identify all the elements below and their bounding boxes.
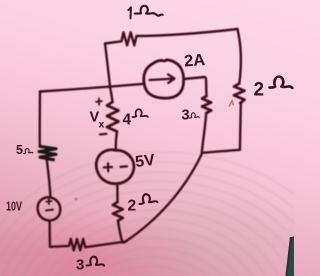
wire R5 top up to corner D — [39, 92, 42, 147]
5V source plus polarity mark — [104, 163, 112, 171]
resistor R2 right 2Ω vertical zigzag — [234, 84, 245, 104]
svg-text:4: 4 — [123, 112, 132, 129]
current source I1 2A circle — [144, 60, 184, 98]
wire corner B down to R2 right top — [237, 29, 241, 84]
svg-text:10V: 10V — [6, 199, 22, 214]
wire 5V source down to R2 middle — [116, 183, 119, 202]
svg-text:2A: 2A — [183, 51, 205, 70]
wire corner F up to R2 right bottom — [239, 104, 242, 150]
Vx plus polarity mark — [96, 98, 102, 104]
wire left side of top loop (A to C) — [105, 44, 110, 87]
wire R3 bottom down to corner E — [202, 113, 206, 153]
current source arrow — [150, 74, 175, 83]
5V source minus polarity mark — [121, 165, 128, 168]
value label 1Ω (top resistor) — [128, 7, 131, 18]
wire diagonal from corner E to junction G — [124, 155, 202, 243]
wire current source right to R3 top — [184, 77, 207, 96]
svg-text:x: x — [99, 119, 105, 131]
wire horizontal through junction C — [40, 84, 145, 92]
svg-text:5V: 5V — [134, 152, 156, 171]
resistor R5 5Ω hatched — [39, 146, 56, 159]
wire junction C down to R4 — [110, 87, 113, 102]
wire 10V source up to R5 — [47, 160, 51, 197]
wire corner E to corner F — [202, 150, 240, 153]
resistor R4 4Ω vertical zigzag — [107, 102, 119, 132]
svg-text:3: 3 — [182, 108, 190, 124]
resistor R2 middle 2Ω vertical zigzag — [113, 202, 123, 221]
svg-text:5: 5 — [16, 143, 23, 157]
resistor R3 3Ω vertical zigzag — [202, 96, 211, 113]
wire top side with resistor R1 1Ω — [105, 29, 238, 45]
wire R4 bottom to 5V source — [116, 132, 117, 151]
voltage source V1 10V circle — [38, 197, 61, 220]
wire bottom side with resistor R3 3Ω coil — [50, 239, 127, 251]
voltage source V2 5V circle — [96, 150, 134, 184]
svg-text:2: 2 — [128, 198, 137, 215]
wire R2 middle down to junction G — [118, 221, 123, 243]
10V source plus polarity mark — [46, 199, 51, 204]
wire corner H up to 10V source — [48, 220, 51, 246]
svg-text:2: 2 — [254, 80, 265, 101]
Vx minus polarity mark — [100, 133, 107, 136]
10V source minus polarity mark — [46, 209, 53, 212]
svg-text:3: 3 — [76, 257, 84, 274]
